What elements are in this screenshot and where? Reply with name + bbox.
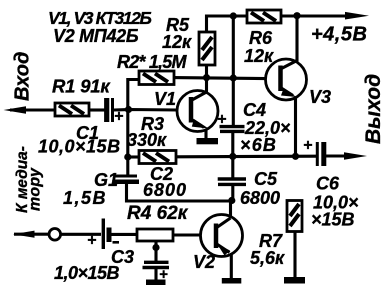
node dot base V1: [125, 106, 132, 113]
wire R4 to V2 base: [173, 233, 201, 236]
wire G1 to R4: [111, 233, 137, 236]
node dot y156 x233: [229, 153, 236, 160]
resistor R2: [139, 71, 174, 85]
svg-text:+: +: [87, 232, 96, 249]
resistor R5: [199, 32, 215, 65]
capacitor C3 below R4: [154, 241, 157, 261]
wire R7 bottom: [293, 232, 296, 279]
wire top supply rail: [207, 16, 353, 32]
capacitor C6: [316, 142, 319, 166]
svg-text:+: +: [217, 111, 226, 128]
wire R1 to C1: [89, 108, 105, 111]
wire R3 right to output node line y156: [176, 155, 316, 159]
svg-text:V2 МП42Б: V2 МП42Б: [53, 26, 139, 46]
svg-text:6800: 6800: [143, 180, 187, 200]
wire C5 leads: [231, 157, 234, 201]
wire C1 to base node: [114, 108, 178, 112]
bottom input arrow: [14, 233, 48, 236]
svg-text:V3: V3: [309, 87, 331, 107]
wire vertical x233 rail to C4: [232, 16, 235, 125]
node dot rail x297: [293, 12, 300, 19]
wire C6 to output arrow: [326, 154, 352, 157]
node dot C5 bottom: [228, 197, 235, 204]
svg-text:12к: 12к: [162, 32, 192, 52]
svg-text:R2* 1,5М: R2* 1,5М: [117, 52, 187, 72]
svg-text:1,0×15В: 1,0×15В: [54, 263, 120, 283]
transistor V3: [266, 59, 307, 100]
input arrow: [10, 108, 56, 111]
wire circle to G1: [61, 233, 102, 236]
svg-text:C6: C6: [316, 174, 340, 194]
connector circle: [49, 229, 61, 241]
svg-text:V2: V2: [193, 252, 215, 272]
svg-text:330к: 330к: [127, 130, 167, 150]
wire C2 down corner right to V2 collector: [127, 184, 232, 201]
wire C4 bottom to node: [231, 132, 234, 158]
svg-text:G1: G1: [94, 170, 118, 190]
resistor R1: [55, 103, 89, 116]
svg-text:1,5В: 1,5В: [63, 188, 107, 208]
svg-text:5,6к: 5,6к: [250, 248, 285, 268]
svg-text:+: +: [303, 137, 312, 154]
arrow +4.5V rail: [345, 12, 369, 20]
label G1 minus: [113, 241, 120, 244]
wire R5 bottom to node: [205, 65, 208, 79]
capacitor C5: [218, 177, 246, 180]
capacitor C1: [104, 98, 109, 122]
transistor V2: [201, 215, 243, 257]
svg-text:V1: V1: [154, 89, 176, 109]
svg-text:R1 91к: R1 91к: [52, 76, 111, 97]
svg-text:R6: R6: [249, 28, 273, 48]
ground V2 emitter: [222, 278, 242, 284]
svg-text:R4 62к: R4 62к: [127, 203, 189, 224]
resistor R3: [139, 151, 176, 164]
resistor R7: [287, 201, 302, 232]
svg-text:×6В: ×6В: [240, 135, 277, 155]
svg-text:V1, V3 КТ312Б: V1, V3 КТ312Б: [48, 8, 151, 28]
transistor V1: [177, 91, 218, 132]
svg-text:6800: 6800: [240, 188, 280, 208]
wire node line y78 to V3 base: [173, 78, 266, 79]
ground V1 emitter: [197, 138, 219, 144]
svg-text:Выход: Выход: [362, 74, 385, 144]
node dot R3 left: [124, 153, 131, 160]
ground R7: [284, 277, 305, 284]
node dot x233 y78: [230, 74, 237, 81]
svg-text:+4,5В: +4,5В: [311, 24, 367, 46]
svg-text:C4: C4: [243, 100, 266, 120]
svg-text:C5: C5: [254, 169, 278, 189]
resistor R6: [247, 10, 281, 23]
svg-text:×15В: ×15В: [311, 210, 355, 230]
battery G1: [102, 219, 105, 250]
svg-text:12к: 12к: [244, 46, 274, 66]
node dot y156 x295: [292, 153, 299, 160]
node dot x206 y77: [203, 74, 210, 81]
wire R2 left corner down: [128, 80, 139, 111]
resistor R4: [137, 229, 173, 241]
node dot rail x233: [230, 12, 237, 19]
svg-text:Вход: Вход: [12, 52, 34, 101]
capacitor C2: [115, 175, 138, 178]
svg-text:тору: тору: [27, 167, 44, 211]
wire x128 vertical base to C2: [126, 109, 129, 175]
svg-text:10,0×15В: 10,0×15В: [38, 137, 121, 157]
wire R3 left lead: [128, 155, 139, 158]
capacitor C4: [220, 125, 245, 128]
ground C3: [146, 280, 166, 286]
